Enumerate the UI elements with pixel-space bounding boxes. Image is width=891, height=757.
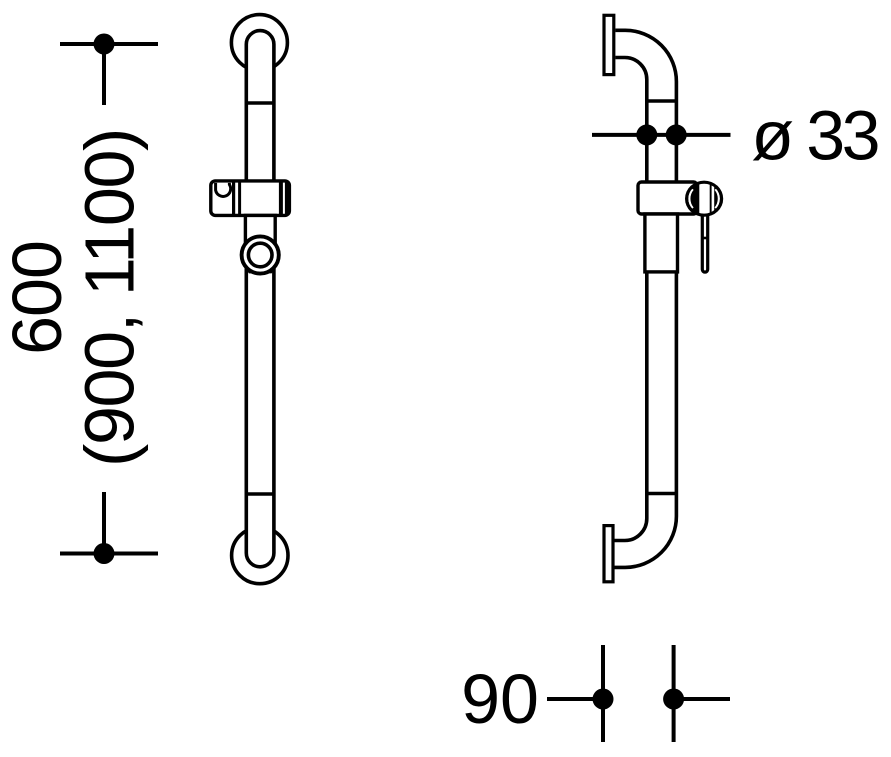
- 90 dimension: right dot: [663, 689, 684, 710]
- top wall flange circle: [231, 15, 287, 71]
- tube joint line top: [246, 101, 274, 105]
- slider bracket (front): [211, 181, 290, 216]
- dia dot right: [666, 124, 687, 145]
- svg-text:600: 600: [0, 241, 76, 355]
- cam lever (front): [216, 183, 231, 197]
- 90 dimension: left tick line: [547, 697, 603, 701]
- svg-text:ø 33: ø 33: [751, 96, 877, 174]
- lever pin joint tick: [701, 237, 709, 240]
- left dimension: top tick dot: [94, 34, 115, 55]
- bracket clamp line left-2: [238, 181, 241, 215]
- tube joint line top (side): [647, 99, 677, 103]
- 90 dimension: left extension line: [601, 645, 605, 742]
- bracket clamp line left-1: [232, 181, 235, 215]
- top wall flange (side): [604, 15, 614, 74]
- left dimension: top extension line: [102, 44, 106, 105]
- bottom wall flange (side): [604, 526, 613, 582]
- bracket clamp line right-1: [279, 181, 283, 215]
- svg-text:(900, 1100): (900, 1100): [71, 129, 149, 467]
- lever pin (side): [702, 206, 707, 272]
- 90 dimension: right extension line: [672, 645, 676, 742]
- left dimension: bottom tick line: [60, 552, 158, 556]
- holder ring inner: [248, 243, 272, 267]
- svg-text:90: 90: [461, 660, 539, 738]
- shower holder cup (front): [245, 215, 275, 271]
- slider bracket (side): [638, 182, 697, 214]
- holder ring outer: [242, 236, 279, 273]
- 90 dimension: right tick line: [674, 697, 730, 701]
- tube joint line bottom (side): [647, 492, 677, 496]
- left dimension: bottom extension line: [102, 492, 106, 554]
- cam knob (side): [685, 180, 723, 218]
- dia dimension line: [592, 133, 731, 137]
- tube joint line bottom: [246, 492, 274, 496]
- bottom wall flange circle: [232, 527, 288, 583]
- rail tube (front): [246, 31, 274, 567]
- tube inner outline (side): [615, 58, 647, 541]
- bracket clamp line right-2: [285, 181, 288, 215]
- holder sleeve (side): [645, 214, 678, 272]
- left dimension: top tick line: [60, 42, 158, 46]
- 90 dimension: left dot: [593, 689, 614, 710]
- left dimension: bottom tick dot: [94, 543, 115, 564]
- tube outer outline (side): [615, 30, 677, 567]
- dia dot left: [636, 124, 657, 145]
